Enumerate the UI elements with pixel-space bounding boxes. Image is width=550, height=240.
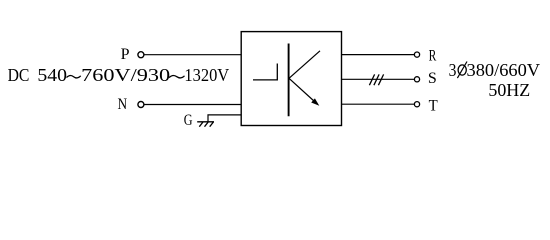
phi symbol (3-phase) (457, 62, 467, 79)
terminal N circle (138, 102, 144, 108)
terminal R circle (414, 52, 419, 57)
svg-text:DC: DC (8, 65, 30, 85)
wire R (342, 54, 415, 56)
tilde 1 (wave) (67, 75, 81, 77)
AC label: 3 phi 380/660V (449, 60, 541, 100)
svg-text:760V/930: 760V/930 (81, 65, 170, 85)
IGBT upper lead (289, 51, 320, 79)
svg-text:S: S (428, 70, 437, 87)
svg-text:G: G (184, 112, 193, 129)
svg-text:50HZ: 50HZ (488, 80, 530, 100)
terminal P circle (138, 52, 144, 58)
svg-text:540: 540 (37, 65, 67, 85)
svg-text:380/660V: 380/660V (467, 60, 541, 80)
wire G (208, 115, 241, 122)
three-phase hatch on wire S (369, 74, 383, 85)
terminal S circle (414, 77, 419, 82)
ground symbol (chassis) (197, 122, 214, 127)
svg-text:N: N (118, 96, 128, 113)
IGBT symbol main bar (288, 44, 290, 117)
IGBT arrowhead (311, 98, 319, 105)
terminal T circle (414, 102, 419, 107)
svg-text:3: 3 (449, 60, 457, 80)
wire S (342, 78, 415, 80)
wire T (342, 103, 415, 105)
svg-text:P: P (121, 46, 130, 63)
svg-text:R: R (429, 47, 437, 64)
wire P (144, 54, 241, 56)
IGBT lower lead with arrow (289, 78, 315, 101)
svg-text:1320V: 1320V (184, 65, 229, 85)
inverter block U1 (box) (241, 32, 341, 126)
svg-text:T: T (429, 97, 438, 114)
wire N (144, 104, 241, 106)
DC voltage label: DC 540~760V/930~1320V (8, 65, 230, 85)
tilde 2 (wave) (169, 75, 184, 77)
IGBT gate lead (253, 64, 277, 80)
